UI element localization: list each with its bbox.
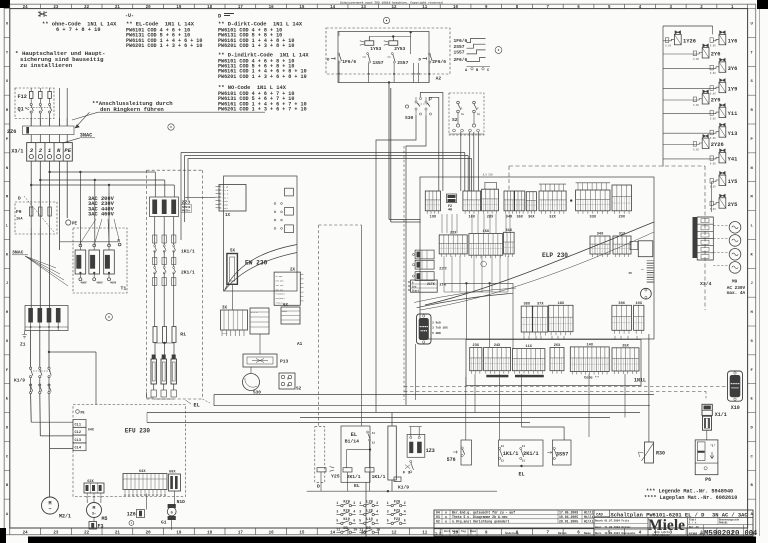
svg-text:** D-dirkt-Code 1N1 L 14X: ** D-dirkt-Code 1N1 L 14X — [218, 21, 303, 27]
svg-text:5.5X: 5.5X — [710, 137, 716, 140]
svg-text:18: 18 — [207, 532, 213, 536]
svg-text:2K1/1: 2K1/1 — [181, 270, 195, 276]
svg-text:Y13: Y13 — [728, 131, 738, 137]
svg-text:16: 16 — [269, 532, 275, 536]
svg-text:D: D — [317, 484, 320, 490]
svg-text:Theta 5 u. Diagramme 2b ä.neu: Theta 5 u. Diagramme 2b ä.neu — [452, 515, 508, 519]
svg-text:576: 576 — [447, 457, 456, 463]
svg-text:10: 10 — [453, 6, 459, 10]
svg-text:Änderung: Änderung — [505, 531, 519, 535]
svg-text:o: o — [445, 515, 447, 519]
svg-text:TxD(GND): TxD(GND) — [276, 293, 285, 296]
svg-text:o: o — [445, 511, 447, 515]
svg-text:23X: 23X — [473, 344, 480, 348]
svg-text:PW20+: PW20+ — [182, 210, 191, 213]
svg-text:1Y6: 1Y6 — [728, 38, 738, 44]
svg-text:33X: 33X — [590, 215, 597, 219]
svg-text:2Y5: 2Y5 — [728, 202, 738, 208]
svg-text:Ber.änd.g. getauscht für zu -: Ber.änd.g. getauscht für zu - auf — [452, 511, 515, 515]
svg-text:6: 6 — [404, 519, 406, 523]
svg-text:M: M — [93, 505, 96, 511]
svg-text:SCH8.46: SCH8.46 — [689, 533, 704, 537]
svg-text:1Y9: 1Y9 — [728, 86, 738, 92]
svg-text:Q1: Q1 — [18, 107, 24, 113]
svg-text:** EL-Code 1N1 L 14X: ** EL-Code 1N1 L 14X — [126, 21, 195, 27]
svg-text:CL1: CL1 — [75, 423, 81, 427]
svg-text:5.5X: 5.5X — [665, 45, 671, 48]
svg-text:2K1/1: 2K1/1 — [347, 474, 361, 480]
svg-text:13: 13 — [361, 6, 367, 10]
svg-text:F3: F3 — [98, 524, 104, 530]
svg-text:14: 14 — [372, 432, 376, 435]
svg-text:5.5X: 5.5X — [710, 185, 716, 188]
svg-text:28X: 28X — [487, 215, 494, 219]
svg-text:**** Lageplan Mat.-Nr. 6082610: **** Lageplan Mat.-Nr. 6082610 — [644, 495, 737, 501]
svg-text:5: 5 — [336, 519, 338, 523]
svg-text:X1/1: X1/1 — [715, 412, 727, 418]
svg-text:N.C.O: N.C.O — [251, 311, 258, 314]
svg-text:PW6101: PW6101 — [719, 522, 728, 525]
svg-text:30X: 30X — [618, 302, 625, 306]
svg-text:G1: G1 — [161, 520, 167, 526]
svg-text:EL: EL — [194, 403, 200, 409]
svg-text:19X: 19X — [430, 215, 437, 219]
svg-text:21: 21 — [115, 6, 121, 10]
svg-text:22: 22 — [84, 6, 90, 10]
svg-text:P13: P13 — [280, 359, 289, 365]
svg-text:Zust: Zust — [444, 530, 451, 533]
svg-text:11X: 11X — [525, 345, 532, 349]
svg-text:480V: 480V — [80, 281, 87, 284]
svg-text:PW6201 COD 1 + 3 + 8 + 10: PW6201 COD 1 + 3 + 8 + 10 — [218, 43, 294, 49]
svg-text:13: 13 — [372, 442, 376, 445]
svg-text:5.5X: 5.5X — [710, 72, 716, 75]
svg-text:1Z3: 1Z3 — [426, 448, 435, 454]
svg-text:1: 1 — [336, 501, 338, 505]
svg-text:PE: PE — [64, 147, 71, 154]
svg-text:zu installieren: zu installieren — [20, 62, 73, 69]
svg-text:3Y6: 3Y6 — [728, 66, 738, 72]
svg-text:20: 20 — [146, 6, 152, 10]
svg-text:PW6201 COD 1 + 3 + 6 + 8 + 10: PW6201 COD 1 + 3 + 6 + 8 + 10 — [218, 74, 307, 80]
svg-text:EFU 230: EFU 230 — [125, 428, 151, 435]
svg-text:5: 5 — [387, 519, 389, 523]
svg-text:Hilli: Hilli — [584, 520, 594, 524]
svg-text:CL3: CL3 — [75, 439, 81, 443]
svg-text:o: o — [445, 520, 447, 524]
svg-text:Card: Card — [222, 332, 228, 335]
svg-text:2: 2 — [376, 501, 378, 505]
svg-text:Y25: Y25 — [331, 474, 340, 480]
svg-text:16A: 16A — [16, 218, 23, 222]
svg-text:1K1/1: 1K1/1 — [503, 451, 519, 457]
svg-text:5.5X: 5.5X — [710, 208, 716, 211]
svg-text:Rx- B: Rx- B — [223, 193, 230, 196]
svg-text:X3/4: X3/4 — [700, 281, 712, 287]
svg-text:1S57: 1S57 — [373, 60, 384, 66]
svg-text:12: 12 — [392, 532, 398, 536]
svg-text:5.5X: 5.5X — [693, 148, 699, 151]
svg-text:1Y53: 1Y53 — [370, 46, 381, 52]
svg-text:22X: 22X — [450, 231, 457, 235]
svg-text:K1/9: K1/9 — [398, 485, 409, 491]
svg-text:U5: U5 — [629, 272, 633, 275]
svg-text:1: 1 — [48, 147, 51, 154]
svg-text:1,2: 1,2 — [435, 533, 441, 537]
svg-text:RxD(GND): RxD(GND) — [276, 297, 285, 300]
svg-text:04: 04 — [436, 511, 440, 515]
svg-text:15: 15 — [299, 6, 305, 10]
svg-text:20: 20 — [146, 532, 152, 536]
svg-text:RxD(S: RxD(S — [223, 203, 230, 206]
svg-text:2Y26: 2Y26 — [711, 142, 724, 148]
svg-text:-U-: -U- — [125, 13, 134, 19]
svg-text:38X: 38X — [524, 303, 531, 307]
svg-text:DNE S: DNE S — [223, 196, 230, 199]
svg-text:2Y53: 2Y53 — [394, 46, 405, 52]
svg-text:17.05.2008: 17.05.2008 — [559, 511, 578, 515]
svg-text:M5: M5 — [102, 516, 108, 522]
svg-text:13: 13 — [522, 460, 526, 463]
svg-text:6: 6 — [376, 519, 378, 523]
svg-text:24X: 24X — [494, 344, 501, 348]
svg-text:Norm 10.08.2004 Koslowski: Norm 10.08.2004 Koslowski — [595, 531, 636, 535]
svg-text:1X: 1X — [225, 214, 231, 218]
svg-text:1Z6: 1Z6 — [127, 512, 136, 518]
svg-text:5 GND: 5 GND — [432, 332, 441, 335]
svg-text:4: 4 — [376, 510, 378, 514]
svg-text:21TC: 21TC — [439, 267, 447, 271]
svg-text:3~: 3~ — [92, 513, 96, 517]
svg-text:Mat.-Nr: Mat.-Nr — [689, 526, 700, 529]
svg-text:2F6/6: 2F6/6 — [454, 57, 468, 63]
svg-text:3: 3 — [387, 510, 389, 514]
svg-text:CL4: CL4 — [75, 447, 82, 451]
svg-text:J: J — [6, 282, 8, 286]
svg-text:11: 11 — [422, 6, 428, 10]
svg-text:Code **: Code ** — [584, 376, 599, 381]
svg-text:GND SCL: GND SCL — [276, 288, 285, 291]
svg-text:10X: 10X — [636, 302, 643, 306]
svg-text:23: 23 — [53, 532, 59, 536]
svg-text:S30: S30 — [405, 115, 414, 121]
svg-text:2: 2 — [353, 501, 355, 505]
svg-text:23: 23 — [53, 6, 59, 10]
svg-text:16: 16 — [269, 6, 275, 10]
svg-text:26X: 26X — [554, 344, 561, 348]
svg-text:2TK: 2TK — [439, 284, 447, 288]
svg-text:17: 17 — [238, 532, 244, 536]
svg-text:19: 19 — [176, 6, 182, 10]
svg-text:3S57: 3S57 — [556, 451, 568, 457]
svg-text:3: 3 — [359, 510, 361, 514]
svg-text:3N AC / 3AC: 3N AC / 3AC — [712, 512, 748, 518]
svg-text:4: 4 — [404, 510, 406, 514]
svg-text:Name: Name — [470, 530, 477, 533]
svg-text:1: 1 — [359, 501, 361, 505]
svg-text:Y11: Y11 — [728, 111, 738, 117]
svg-text:A1: A1 — [297, 342, 303, 347]
svg-text:GND+: GND+ — [282, 310, 288, 313]
svg-text:Gepr 11.08.2004 Krüger: Gepr 11.08.2004 Krüger — [595, 525, 631, 529]
svg-text:5: 5 — [359, 519, 361, 523]
svg-text:EL: EL — [351, 432, 357, 438]
svg-text:1Y5: 1Y5 — [728, 179, 738, 185]
svg-text:CL2: CL2 — [75, 431, 81, 435]
svg-text:P6: P6 — [705, 477, 711, 483]
svg-text:1N1L: 1N1L — [634, 378, 646, 384]
svg-text:2 RxD: 2 RxD — [432, 321, 441, 324]
svg-text:1K1/1: 1K1/1 — [372, 474, 386, 480]
svg-text:22: 22 — [84, 532, 90, 536]
svg-text:14: 14 — [501, 445, 505, 448]
svg-text:21: 21 — [115, 532, 121, 536]
svg-text:5.5X: 5.5X — [693, 58, 699, 61]
svg-text:5.5X: 5.5X — [710, 45, 716, 48]
svg-text:14: 14 — [330, 6, 336, 10]
svg-text:*** Legende Mat.-Nr. 5948940: *** Legende Mat.-Nr. 5948940 — [646, 489, 733, 495]
svg-text:18X: 18X — [558, 302, 565, 306]
svg-text:End: End — [412, 285, 417, 288]
svg-text:15X: 15X — [483, 230, 490, 234]
svg-text:"1": "1" — [710, 444, 716, 448]
svg-text:2Z6: 2Z6 — [7, 129, 16, 135]
svg-text:4: 4 — [353, 510, 355, 514]
svg-text:1F6/6: 1F6/6 — [342, 59, 356, 65]
svg-text:Hilli: Hilli — [584, 515, 594, 519]
svg-text:1 / v.: 1 / v. — [689, 522, 698, 525]
svg-text:B1/14: B1/14 — [345, 439, 360, 445]
svg-text:5.5X: 5.5X — [710, 163, 716, 166]
svg-text:1S57: 1S57 — [454, 50, 465, 56]
svg-text:29X: 29X — [619, 215, 626, 219]
svg-text:PW6201 COD 1 + 3 + 6 + 7 + 10: PW6201 COD 1 + 3 + 6 + 7 + 10 — [218, 107, 307, 113]
svg-text:R30: R30 — [656, 451, 665, 457]
svg-text:2Y6: 2Y6 — [711, 52, 721, 58]
svg-text:Z1: Z1 — [20, 342, 26, 348]
svg-text:460V: 460V — [110, 281, 117, 284]
svg-text:S2: S2 — [296, 387, 302, 392]
svg-text:T1: T1 — [121, 286, 127, 292]
svg-text:2K1/1: 2K1/1 — [523, 451, 539, 457]
svg-text:34X: 34X — [597, 233, 604, 237]
svg-text:Hilli: Hilli — [584, 511, 594, 515]
svg-text:1K1/1: 1K1/1 — [181, 249, 195, 255]
svg-text:15: 15 — [299, 532, 305, 536]
svg-text:PE: PE — [72, 223, 78, 227]
svg-text:6: 6 — [353, 519, 355, 523]
svg-text:TxD(S: TxD(S — [223, 200, 230, 203]
svg-text:Y41: Y41 — [728, 157, 738, 163]
svg-text:37X: 37X — [537, 303, 544, 307]
svg-text:2S57: 2S57 — [454, 44, 465, 50]
svg-text:Name: Name — [584, 532, 591, 535]
svg-text:Konstruktion: Konstruktion — [653, 534, 671, 537]
svg-text:6 + 7 + 8 + 10: 6 + 7 + 8 + 10 — [56, 27, 101, 33]
svg-text:13: 13 — [501, 460, 505, 463]
svg-text:400V: 400V — [96, 281, 103, 284]
svg-text:+5V SDA: +5V SDA — [276, 284, 285, 287]
svg-text:F 3: F 3 — [403, 471, 411, 475]
svg-text:K1/9: K1/9 — [14, 378, 25, 384]
svg-text:X3/1: X3/1 — [11, 149, 23, 155]
svg-text:32X: 32X — [549, 215, 556, 219]
svg-text:TxD(+: TxD(+ — [223, 207, 230, 210]
svg-text:24: 24 — [23, 532, 29, 536]
svg-text:10: 10 — [376, 528, 380, 532]
svg-text:D: D — [18, 196, 21, 202]
svg-text:Ausg.: Ausg. — [452, 530, 460, 533]
svg-text:max. 4A: max. 4A — [727, 291, 746, 296]
svg-text:2F6/6: 2F6/6 — [432, 59, 446, 65]
svg-text:PR5 GND: PR5 GND — [276, 280, 285, 283]
svg-text:2Y9: 2Y9 — [711, 98, 721, 104]
svg-text:S30: S30 — [253, 391, 261, 396]
svg-text:EL: EL — [519, 471, 525, 477]
svg-text:14: 14 — [522, 445, 526, 448]
svg-text:J: J — [750, 282, 752, 286]
svg-text:6,5 230: 6,5 230 — [483, 174, 494, 177]
svg-text:M2/1: M2/1 — [59, 514, 71, 520]
svg-text:Da: Da — [461, 113, 465, 116]
svg-text:11: 11 — [422, 532, 428, 536]
svg-text:1F6/6: 1F6/6 — [454, 38, 468, 44]
svg-text:1Y26: 1Y26 — [683, 38, 696, 44]
svg-text:64X: 64X — [88, 428, 94, 432]
svg-text:2: 2 — [404, 501, 406, 505]
svg-text:3AC 460V: 3AC 460V — [88, 212, 115, 218]
svg-text:~: ~ — [48, 507, 51, 513]
svg-text:PE: PE — [81, 412, 85, 416]
svg-text:1: 1 — [387, 501, 389, 505]
svg-text:02: 02 — [436, 520, 440, 524]
svg-text:2S57: 2S57 — [397, 60, 408, 66]
svg-text:Datum: Datum — [558, 532, 567, 535]
svg-text:35X: 35X — [516, 215, 523, 219]
svg-text:10.04.2005: 10.04.2005 — [559, 515, 578, 519]
svg-text:Rx+ B: Rx+ B — [223, 189, 230, 192]
svg-text:Tag: Tag — [461, 530, 466, 533]
svg-text:A2: A2 — [436, 76, 442, 82]
svg-text:19: 19 — [176, 532, 182, 536]
svg-text:3 TxD 1DX: 3 TxD 1DX — [432, 327, 448, 330]
svg-text:F12: F12 — [18, 94, 27, 100]
svg-text:11: 11 — [359, 528, 363, 532]
svg-text:F9: F9 — [16, 209, 22, 215]
svg-text:M9: M9 — [732, 280, 738, 285]
svg-text:5.5X: 5.5X — [710, 117, 716, 120]
svg-text:R1: R1 — [180, 332, 186, 338]
svg-text:Schutzvermerk nach ISO 16016 b: Schutzvermerk nach ISO 16016 beachten. C… — [340, 1, 443, 5]
svg-text:Da: Da — [477, 113, 481, 116]
svg-text:CAD: CAD — [596, 513, 604, 517]
svg-text:3: 3 — [336, 510, 338, 514]
svg-text:31X: 31X — [506, 229, 513, 233]
svg-text:004: 004 — [745, 530, 758, 538]
svg-text:X10: X10 — [731, 405, 740, 411]
svg-text:Bearb 01.07.2004 Fritz: Bearb 01.07.2004 Fritz — [595, 519, 630, 523]
svg-text:28.01.2005: 28.01.2005 — [559, 520, 578, 524]
svg-text:PW6201 COD 1 + 3 + 6 + 10: PW6201 COD 1 + 3 + 6 + 10 — [126, 43, 202, 49]
svg-text:18: 18 — [207, 6, 213, 10]
svg-text:M5902020: M5902020 — [704, 530, 740, 538]
svg-text:14X: 14X — [587, 343, 594, 347]
svg-text:17: 17 — [238, 6, 244, 10]
svg-text:n.Org.ansl Umrichtung geändert: n.Org.ansl Umrichtung geändert — [452, 520, 509, 524]
svg-text:12: 12 — [392, 6, 398, 10]
svg-text:11: 11 — [336, 528, 340, 532]
svg-text:Start: Start — [412, 289, 420, 292]
svg-text:S2: S2 — [452, 117, 458, 123]
svg-text:C2 GND: C2 GND — [276, 275, 284, 278]
svg-text:36X: 36X — [528, 215, 535, 219]
svg-text:14: 14 — [330, 532, 336, 536]
svg-text:34X: 34X — [506, 215, 513, 219]
svg-text:C+ A5: C+ A5 — [223, 186, 230, 189]
svg-text:G: G — [171, 511, 173, 515]
svg-text:25X: 25X — [622, 344, 629, 348]
svg-text:N1D: N1D — [177, 499, 186, 505]
svg-text:10: 10 — [353, 528, 357, 532]
svg-text:5.5X: 5.5X — [710, 93, 716, 96]
svg-text:5.5X: 5.5X — [693, 104, 699, 107]
svg-text:24: 24 — [23, 6, 29, 10]
svg-text:03: 03 — [436, 515, 440, 519]
svg-text:EL: EL — [354, 483, 360, 489]
